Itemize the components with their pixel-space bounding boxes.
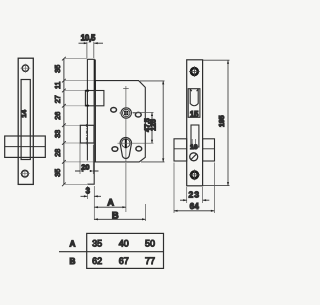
dim column ticks xyxy=(62,57,66,186)
svg-text:18: 18 xyxy=(190,144,198,151)
svg-text:77: 77 xyxy=(145,256,155,266)
right view: faceplate xyxy=(187,60,203,186)
svg-text:20: 20 xyxy=(81,162,89,171)
right view: deadbolt left part xyxy=(174,139,187,161)
svg-text:23: 23 xyxy=(189,190,201,200)
A dimension xyxy=(94,163,126,212)
left view: faceplate outline xyxy=(18,58,33,184)
centre view: body left edge xyxy=(94,81,96,162)
svg-text:10,5: 10,5 xyxy=(81,33,96,42)
23 dimension xyxy=(180,187,209,203)
centre view: lock case with chamfered right corners xyxy=(94,81,145,162)
125 dimension xyxy=(140,81,165,162)
svg-text:26: 26 xyxy=(53,112,62,120)
centre view: hole right of follower xyxy=(135,112,141,117)
table: outer box xyxy=(87,233,164,268)
left view: deadbolt head xyxy=(5,136,46,157)
svg-text:11: 11 xyxy=(53,82,62,89)
left view: top screw hole xyxy=(21,64,31,73)
svg-text:195: 195 xyxy=(219,115,226,127)
svg-text:A: A xyxy=(107,197,114,208)
right view: slotted screw xyxy=(190,153,198,161)
centre view: follower hub xyxy=(119,108,135,118)
svg-text:33: 33 xyxy=(53,130,62,138)
svg-text:50: 50 xyxy=(145,238,155,248)
dim column extension lines to centre view xyxy=(64,59,94,185)
table: row B values xyxy=(92,256,155,266)
3 dimension xyxy=(81,186,102,220)
svg-text:67: 67 xyxy=(119,256,129,266)
47,5 dimension xyxy=(145,113,153,144)
svg-text:3: 3 xyxy=(86,187,91,196)
195 dimension xyxy=(203,60,230,185)
centre view: hole left of follower xyxy=(111,108,117,113)
svg-text:35: 35 xyxy=(53,65,62,73)
right view: lower window xyxy=(191,125,199,147)
svg-text:14: 14 xyxy=(21,110,28,118)
svg-text:B: B xyxy=(112,210,119,221)
centre view: hole right of cylinder xyxy=(136,146,142,151)
table: row A values xyxy=(92,238,155,248)
svg-text:15: 15 xyxy=(190,110,199,119)
20 dimension xyxy=(75,144,99,175)
left view: bolt mid line xyxy=(5,146,46,148)
centre view: deadbolt xyxy=(80,124,94,144)
centre view: euro cylinder xyxy=(120,138,131,159)
centre view: hole left of cylinder xyxy=(112,147,118,152)
svg-text:A: A xyxy=(69,239,75,248)
svg-text:27: 27 xyxy=(53,95,62,103)
svg-text:62: 62 xyxy=(92,256,102,266)
svg-text:64: 64 xyxy=(190,202,200,211)
left view: slot xyxy=(21,80,30,160)
right view: top screw xyxy=(189,66,200,77)
right view: bottom screw xyxy=(189,170,200,181)
B dimension xyxy=(94,204,145,221)
64 dimension xyxy=(174,163,214,214)
centre view: follower side ticks xyxy=(119,112,135,114)
dim column labels xyxy=(53,65,62,177)
right view: latch window xyxy=(188,89,200,118)
right view: latch bolt inside window xyxy=(190,89,198,106)
centre view: faceplate strip xyxy=(87,59,94,184)
right view: lower window inner lines xyxy=(192,139,195,144)
svg-text:35: 35 xyxy=(92,238,102,248)
svg-text:B: B xyxy=(69,257,75,266)
centre view: vertical centreline xyxy=(123,86,129,162)
centre view: plate right edge dark band xyxy=(94,60,96,91)
svg-text:125: 125 xyxy=(151,119,158,131)
left view: bottom screw hole xyxy=(20,169,30,178)
svg-text:35: 35 xyxy=(53,169,62,177)
svg-text:28: 28 xyxy=(53,149,62,157)
centre view: latch bolt xyxy=(85,91,104,106)
svg-text:40: 40 xyxy=(119,238,129,248)
right view: deadbolt right part xyxy=(203,139,215,161)
10,5 dimension xyxy=(79,33,104,58)
centre view: cylinder centreline extension xyxy=(118,142,154,144)
table: row divider and left leader xyxy=(59,251,164,253)
dim column line xyxy=(63,59,65,185)
centre view: follower centreline extension xyxy=(133,112,154,114)
